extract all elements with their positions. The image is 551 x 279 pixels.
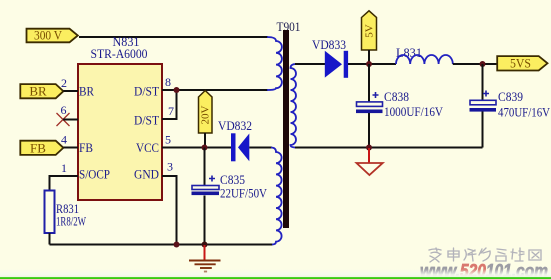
transformer T901 core bbox=[283, 30, 289, 228]
svg-text:STR-A6000: STR-A6000 bbox=[91, 46, 148, 61]
svg-text:20V: 20V bbox=[199, 105, 211, 124]
resistor R831 bbox=[45, 191, 55, 234]
wire VD833 to junction and L831 bbox=[348, 63, 396, 65]
svg-text:C839: C839 bbox=[498, 89, 523, 104]
port flag FB bbox=[20, 140, 63, 155]
junction VCC / C835 bbox=[202, 145, 208, 151]
wire secondary ground bus bbox=[295, 147, 483, 149]
power flag 300V bbox=[27, 28, 78, 43]
wire 5V stem bbox=[368, 50, 370, 64]
wire primary ground bus bbox=[50, 244, 273, 246]
pin 4 wire bbox=[63, 147, 78, 149]
svg-text:GND: GND bbox=[134, 167, 159, 182]
svg-text:VCC: VCC bbox=[136, 140, 159, 155]
diode VD832 bbox=[231, 133, 249, 161]
svg-text:1: 1 bbox=[61, 161, 67, 175]
svg-text:D/ST: D/ST bbox=[134, 113, 159, 128]
earth ground (primary) bbox=[189, 245, 221, 272]
wire 300V rail to transformer primary bbox=[79, 36, 268, 38]
wire L831 to 5VS bbox=[453, 63, 497, 65]
pin 8 wire (D/ST rail) bbox=[162, 89, 268, 91]
svg-text:4: 4 bbox=[61, 133, 67, 147]
pin 7 wire bbox=[162, 90, 177, 119]
chassis ground (secondary) bbox=[357, 148, 383, 175]
svg-text:22UF/50V: 22UF/50V bbox=[220, 186, 268, 201]
wire C839 top bbox=[482, 64, 484, 101]
capacitor C835 bbox=[192, 176, 220, 196]
svg-text:BR: BR bbox=[79, 84, 94, 99]
diode VD833 bbox=[325, 51, 348, 78]
junction bus / C835 bbox=[202, 242, 208, 248]
svg-text:VD832: VD832 bbox=[218, 118, 252, 133]
pin 5 wire (VCC rail) bbox=[162, 147, 231, 149]
svg-text:6: 6 bbox=[61, 103, 67, 117]
pin 6 wire bbox=[63, 119, 78, 121]
svg-text:FB: FB bbox=[79, 140, 93, 155]
wire 20V stem bbox=[204, 133, 206, 148]
wire C835 bottom bbox=[204, 196, 206, 245]
svg-text:5: 5 bbox=[165, 133, 171, 147]
svg-text:1R8/2W: 1R8/2W bbox=[56, 215, 86, 229]
transformer aux winding (bottom-left) bbox=[271, 148, 282, 245]
svg-text:C838: C838 bbox=[384, 89, 409, 104]
capacitor C839 bbox=[470, 91, 497, 112]
wire C835 top bbox=[204, 148, 206, 187]
svg-text:D/ST: D/ST bbox=[134, 84, 159, 99]
svg-text:3: 3 bbox=[167, 160, 173, 174]
power flag 20V bbox=[199, 91, 213, 134]
bottom green bar bbox=[0, 269, 551, 277]
wire secondary to VD833 bbox=[295, 63, 325, 65]
wire resistor bottom bbox=[49, 233, 51, 245]
capacitor C838 bbox=[356, 92, 383, 113]
transformer primary winding (top) bbox=[267, 37, 282, 90]
svg-text:5VS: 5VS bbox=[510, 56, 531, 71]
svg-text:FB: FB bbox=[30, 140, 46, 155]
junction bus / pin3 bbox=[174, 242, 180, 248]
svg-text:470UF/16V: 470UF/16V bbox=[498, 105, 551, 120]
svg-text:8: 8 bbox=[165, 75, 171, 89]
junction bus / C838 bbox=[366, 145, 372, 151]
power flag 5V bbox=[362, 11, 377, 50]
pin 3 wire bbox=[162, 176, 177, 245]
junction L831 / C839 bbox=[480, 61, 486, 67]
inductor L831 bbox=[396, 55, 453, 64]
op-amp/IC N831 body bbox=[78, 64, 162, 200]
svg-text:VD833: VD833 bbox=[312, 37, 346, 52]
port flag BR bbox=[20, 84, 63, 99]
pin 1 wire bbox=[50, 176, 79, 191]
pin 6 no-connect X bbox=[57, 113, 70, 126]
svg-text:BR: BR bbox=[29, 84, 47, 99]
power flag 5VS bbox=[497, 56, 547, 71]
junction pin7/pin8 bbox=[174, 87, 180, 93]
svg-text:300 V: 300 V bbox=[34, 28, 63, 43]
wire C839 bottom bbox=[482, 112, 484, 148]
svg-text:5V: 5V bbox=[363, 24, 375, 38]
wire C838 bottom bbox=[368, 113, 370, 148]
watermark chinese text bbox=[429, 248, 541, 262]
junction VD833 / 5V / C838 bbox=[366, 61, 372, 67]
transformer secondary winding bbox=[291, 64, 297, 148]
svg-text:S/OCP: S/OCP bbox=[79, 167, 110, 182]
svg-text:7: 7 bbox=[168, 104, 174, 118]
svg-text:1000UF/16V: 1000UF/16V bbox=[384, 104, 444, 119]
pin 2 wire bbox=[63, 90, 78, 92]
svg-text:2: 2 bbox=[61, 76, 67, 90]
wire VD832 to aux winding bbox=[249, 147, 272, 149]
wire C838 top bbox=[368, 64, 370, 102]
